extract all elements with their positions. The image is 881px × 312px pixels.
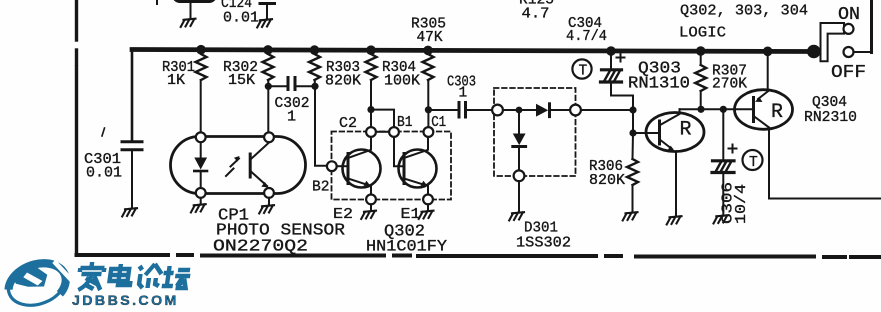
transistor Q304 circle <box>735 90 793 130</box>
transistor Q304 emitter (arrow in) <box>758 92 768 100</box>
svg-text:10/4: 10/4 <box>732 184 750 224</box>
D301 terminal circles <box>492 105 581 182</box>
svg-text:ON: ON <box>838 5 860 25</box>
svg-text:R: R <box>771 101 783 124</box>
svg-text:E2: E2 <box>333 205 353 223</box>
wire node to R306 <box>632 133 635 159</box>
wire CP1 emitter to ground <box>268 198 270 205</box>
svg-text:15K: 15K <box>228 73 255 89</box>
switch S301 lever <box>821 23 845 61</box>
capacitor C303 <box>458 103 461 118</box>
svg-text:47K: 47K <box>417 30 443 46</box>
transistor Q304 emitter wire from rail <box>763 47 773 57</box>
capacitor C124 value label <box>0 0 1 1</box>
photo sensor CP1 body <box>171 137 306 194</box>
svg-text:RN2310: RN2310 <box>804 110 857 126</box>
svg-text:C2: C2 <box>339 114 357 132</box>
wire D301 to ground <box>518 181 520 212</box>
svg-text:820K: 820K <box>589 173 625 189</box>
CP1 terminal circles <box>196 132 274 197</box>
switch OFF contact <box>844 47 854 57</box>
resistor R303 <box>309 54 320 80</box>
node junction R305/C1/C303 <box>425 106 432 113</box>
ground (CP1 left) <box>191 204 206 212</box>
switch ON contact <box>844 24 854 34</box>
svg-text:1SS302: 1SS302 <box>516 236 571 252</box>
svg-text:OFF: OFF <box>831 63 866 83</box>
CP1 phototransistor base bar <box>249 154 252 177</box>
transistor Q304 collector <box>755 117 769 128</box>
char jia <box>77 262 105 290</box>
svg-text:4.7/4: 4.7/4 <box>566 29 607 45</box>
wire C304 to node <box>611 84 633 111</box>
transistor Q302a base bar <box>347 154 350 184</box>
ground (D301) <box>509 212 524 220</box>
svg-text:1K: 1K <box>167 73 185 89</box>
wire C301 to ground <box>131 151 133 208</box>
CP1 LED diode <box>194 158 207 170</box>
transistor Q302b emitter <box>406 179 426 185</box>
transistor Q302b circle <box>399 150 437 188</box>
node shunt diode <box>516 107 523 114</box>
wire Q303 collector bus to Q304 base <box>680 108 753 110</box>
test point T2 <box>743 150 763 170</box>
transistor Q302a collector <box>350 137 372 158</box>
capacitor C301 <box>122 140 142 143</box>
wire node to C2 <box>370 110 372 128</box>
capacitor C304 (electrolytic) <box>606 46 616 56</box>
switch S301 common node <box>807 45 821 59</box>
svg-text:100K: 100K <box>384 74 420 90</box>
CP1 light arrow <box>226 159 239 177</box>
ground (CP1 right) <box>259 205 274 213</box>
transistor Q302b base bar <box>403 154 406 184</box>
svg-text:ON2270Q2: ON2270Q2 <box>213 238 308 257</box>
resistor R302 <box>263 54 274 80</box>
ground (Q303) <box>667 216 682 224</box>
ground (E1) <box>419 211 434 219</box>
svg-text:R: R <box>680 119 692 142</box>
wire E1 to ground <box>427 204 429 210</box>
transistor Q303 circle <box>646 113 704 152</box>
ground (C306) <box>714 215 729 223</box>
wire Q303 emitter to ground <box>675 152 677 217</box>
wire R305 to node <box>427 80 429 110</box>
tick mark above C301 label <box>102 128 105 136</box>
wire R302 to CP1 collector <box>267 80 269 133</box>
top rail (supply net) <box>132 50 814 52</box>
watermark swirl wedge <box>12 267 47 287</box>
transistor Q303 emitter <box>661 141 672 150</box>
svg-text:D301: D301 <box>524 221 558 237</box>
transistor Q303 collector <box>661 109 680 124</box>
wire CP1 cathode to ground <box>200 198 202 204</box>
wire E2 to ground <box>370 204 372 210</box>
char dian <box>109 264 133 285</box>
wire R303 to B2 <box>315 80 327 166</box>
svg-text:C1: C1 <box>431 113 446 131</box>
svg-text:HN1C01FY: HN1C01FY <box>366 238 447 256</box>
wire R306 to ground <box>632 185 634 212</box>
wire into diode <box>503 109 535 111</box>
CP1 LED wire <box>200 142 202 157</box>
wire OFF to right border <box>854 51 871 53</box>
svg-text:4.7: 4.7 <box>522 7 550 23</box>
diode block D301 dashed box <box>494 88 576 176</box>
ground (C301) <box>122 208 137 216</box>
ground (R306) <box>623 212 638 220</box>
svg-text:Q304: Q304 <box>812 95 847 111</box>
resistor R305 <box>423 54 434 80</box>
Q302 dashed package box <box>332 132 452 200</box>
wire node to C1 <box>427 110 429 128</box>
right border <box>870 0 873 53</box>
svg-text:820K: 820K <box>325 74 361 90</box>
wire D301 box to node <box>581 109 633 111</box>
char tan <box>162 266 192 288</box>
transistor Q304 base bar <box>752 98 755 122</box>
watermark logo swirl <box>2 254 76 312</box>
watermark chinese characters <box>77 262 192 290</box>
resistor R304 <box>366 54 377 80</box>
wire R304 to node <box>370 80 372 110</box>
transistor Q302b collector <box>406 137 429 158</box>
rail junction dots <box>196 45 206 55</box>
wire U1 to ground <box>190 3 192 19</box>
diode D301b (shunt) <box>518 110 520 133</box>
wire node to C303 <box>428 109 457 111</box>
wire rail corner to C301 <box>131 50 134 141</box>
svg-text:LOGIC: LOGIC <box>679 24 726 42</box>
char lun <box>137 264 163 288</box>
capacitor C302 <box>268 85 286 87</box>
wire C124 to ground <box>266 5 268 19</box>
svg-text:E1: E1 <box>401 205 421 223</box>
node junction R303/C302 <box>311 83 318 90</box>
transistor Q302a circle <box>343 150 381 188</box>
CP1 phototransistor emitter <box>252 172 268 186</box>
wire Q303 base <box>633 132 658 134</box>
test point T1 <box>572 59 591 78</box>
svg-text:C303: C303 <box>447 75 476 91</box>
node junction Q303 base <box>629 129 636 136</box>
svg-text:0.01: 0.01 <box>86 166 122 182</box>
svg-text:Q302, 303, 304: Q302, 303, 304 <box>680 2 808 20</box>
Q302 terminal circles <box>327 127 433 204</box>
node junction D301/C304 <box>629 106 636 113</box>
svg-text:T: T <box>579 64 588 80</box>
node junction R302/C302 <box>265 83 272 90</box>
capacitor C124 plate <box>260 2 275 5</box>
CP1 phototransistor collector <box>252 143 270 159</box>
wire R301 to CP1 anode <box>200 80 202 133</box>
svg-text:RN1310: RN1310 <box>628 75 690 94</box>
capacitor C306 (electrolytic) <box>722 109 724 159</box>
svg-text:T: T <box>749 155 758 171</box>
resistor R306 <box>627 159 638 185</box>
ground (C124) <box>257 19 272 27</box>
wire Q304 collector out <box>769 128 881 199</box>
svg-text:270K: 270K <box>712 77 747 93</box>
bottom border (dashed) <box>77 255 881 257</box>
node junction R304/C2/B1 <box>367 106 374 113</box>
wire node to B1 <box>371 110 394 128</box>
node junction C306 <box>720 106 727 113</box>
svg-text:0.01: 0.01 <box>223 11 259 27</box>
node junction R307 <box>697 106 704 113</box>
diode D301a (series) <box>536 104 548 117</box>
svg-text:1: 1 <box>287 108 296 126</box>
IC U1 (cut off at top edge) <box>172 0 217 3</box>
wire node to Q303 base node <box>632 110 634 133</box>
svg-text:B2: B2 <box>312 178 330 196</box>
svg-text:B1: B1 <box>397 113 413 131</box>
left dash-dot border <box>75 0 78 254</box>
transistor Q302a emitter <box>350 179 369 185</box>
transistor Q302b base wire <box>394 137 403 166</box>
wire C2 to B1 <box>376 131 389 133</box>
resistor R301 <box>196 54 207 80</box>
ground (U1) <box>181 19 196 27</box>
wire C306 to ground <box>722 174 724 215</box>
transistor Q302a base wire <box>337 165 347 167</box>
svg-text:JDBBS.COM: JDBBS.COM <box>72 293 179 309</box>
ground (E2) <box>361 211 376 219</box>
resistor R307 <box>696 46 706 56</box>
transistor Q303 base bar <box>658 121 661 144</box>
